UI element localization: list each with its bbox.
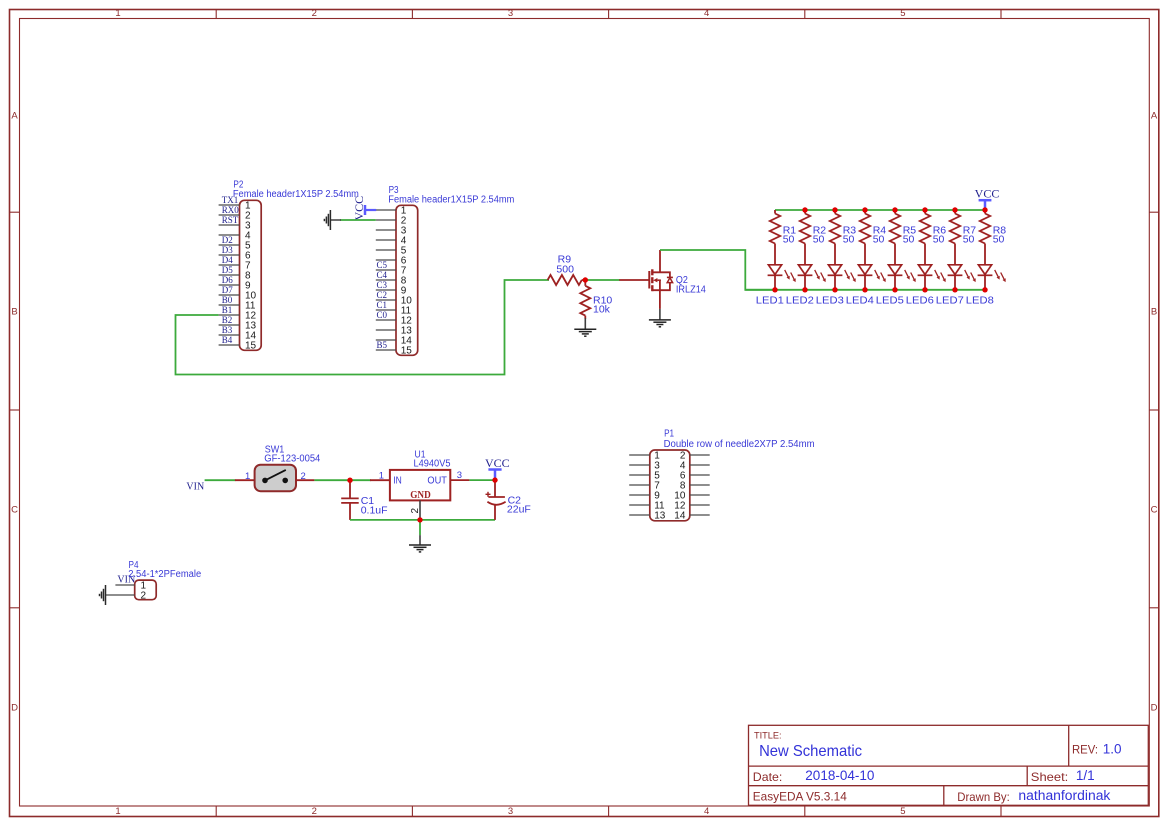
svg-text:LED6: LED6	[906, 295, 934, 307]
svg-text:1/1: 1/1	[1076, 768, 1095, 783]
svg-text:10k: 10k	[593, 303, 611, 315]
svg-text:3: 3	[508, 8, 513, 19]
svg-text:B: B	[1151, 307, 1157, 318]
svg-text:LED8: LED8	[966, 295, 994, 307]
svg-text:LED3: LED3	[816, 295, 844, 307]
svg-text:B4: B4	[222, 335, 233, 345]
svg-text:RST: RST	[222, 215, 239, 225]
svg-text:1.0: 1.0	[1103, 741, 1122, 756]
svg-text:2018-04-10: 2018-04-10	[805, 768, 874, 783]
svg-text:VIN: VIN	[186, 482, 204, 493]
svg-text:2: 2	[312, 806, 317, 817]
svg-text:VCC: VCC	[352, 196, 366, 221]
svg-text:D6: D6	[222, 275, 233, 285]
svg-text:C: C	[11, 504, 18, 515]
svg-text:22uF: 22uF	[507, 503, 531, 515]
svg-text:50: 50	[963, 234, 975, 246]
svg-text:C: C	[1151, 504, 1158, 515]
svg-text:1: 1	[115, 806, 120, 817]
svg-text:C1: C1	[377, 300, 388, 310]
svg-text:D7: D7	[222, 285, 233, 295]
svg-text:LED5: LED5	[876, 295, 904, 307]
svg-text:A: A	[11, 111, 18, 122]
svg-text:15: 15	[245, 341, 257, 352]
svg-text:LED7: LED7	[936, 295, 964, 307]
svg-text:4: 4	[704, 8, 709, 19]
svg-text:D2: D2	[222, 235, 233, 245]
svg-text:GF-123-0054: GF-123-0054	[264, 454, 321, 465]
svg-text:500: 500	[556, 263, 574, 275]
svg-text:3: 3	[457, 470, 462, 481]
svg-text:C5: C5	[377, 260, 388, 270]
svg-text:15: 15	[401, 346, 413, 357]
svg-text:C3: C3	[377, 280, 388, 290]
svg-text:50: 50	[873, 234, 885, 246]
svg-text:Female header1X15P 2.54mm: Female header1X15P 2.54mm	[388, 194, 514, 205]
svg-text:1: 1	[245, 471, 250, 482]
svg-text:C0: C0	[377, 310, 388, 320]
svg-text:D: D	[11, 702, 18, 713]
svg-text:13: 13	[654, 511, 666, 522]
svg-text:New Schematic: New Schematic	[759, 743, 862, 760]
svg-text:D4: D4	[222, 255, 233, 265]
svg-text:REV:: REV:	[1072, 743, 1098, 757]
svg-text:D5: D5	[222, 265, 233, 275]
svg-text:B0: B0	[222, 295, 233, 305]
svg-text:1: 1	[115, 8, 120, 19]
svg-text:OUT: OUT	[427, 476, 447, 487]
svg-text:B3: B3	[222, 325, 233, 335]
svg-text:50: 50	[813, 234, 825, 246]
svg-text:B2: B2	[222, 315, 233, 325]
svg-text:TITLE:: TITLE:	[754, 731, 782, 741]
svg-text:B: B	[11, 307, 17, 318]
svg-text:LED4: LED4	[846, 295, 874, 307]
svg-text:IRLZ14: IRLZ14	[676, 284, 707, 295]
svg-text:2.54-1*2PFemale: 2.54-1*2PFemale	[128, 569, 202, 580]
svg-text:50: 50	[903, 234, 915, 246]
svg-text:D: D	[1151, 702, 1158, 713]
svg-text:5: 5	[900, 806, 905, 817]
svg-text:Female header1X15P 2.54mm: Female header1X15P 2.54mm	[233, 189, 359, 200]
svg-text:C2: C2	[377, 290, 388, 300]
svg-text:RX0: RX0	[222, 205, 240, 215]
svg-text:LED2: LED2	[786, 295, 814, 307]
svg-text:Date:: Date:	[753, 770, 783, 784]
svg-text:2: 2	[410, 508, 421, 514]
svg-text:50: 50	[993, 234, 1005, 246]
svg-text:50: 50	[783, 234, 795, 246]
svg-text:14: 14	[674, 511, 686, 522]
svg-text:LED1: LED1	[756, 295, 784, 307]
svg-text:1: 1	[379, 471, 384, 482]
svg-text:GND: GND	[410, 490, 431, 501]
svg-text:P1: P1	[664, 429, 674, 440]
svg-text:50: 50	[933, 234, 945, 246]
svg-text:VCC: VCC	[485, 456, 510, 470]
svg-text:IN: IN	[393, 476, 402, 487]
svg-text:3: 3	[508, 806, 513, 817]
svg-text:B5: B5	[377, 340, 388, 350]
svg-text:B1: B1	[222, 305, 233, 315]
svg-text:Drawn By:: Drawn By:	[957, 790, 1010, 804]
svg-text:EasyEDA V5.3.14: EasyEDA V5.3.14	[753, 789, 847, 803]
svg-text:C4: C4	[377, 270, 388, 280]
svg-text:0.1uF: 0.1uF	[361, 505, 388, 517]
svg-text:Sheet:: Sheet:	[1031, 770, 1069, 784]
svg-text:2: 2	[312, 8, 317, 19]
svg-text:A: A	[1151, 111, 1158, 122]
svg-text:50: 50	[843, 234, 855, 246]
svg-text:nathanfordinak: nathanfordinak	[1018, 788, 1110, 803]
svg-text:5: 5	[900, 8, 905, 19]
svg-text:4: 4	[704, 806, 709, 817]
svg-text:Double row of needle2X7P 2.54m: Double row of needle2X7P 2.54mm	[664, 439, 815, 450]
svg-text:2: 2	[141, 591, 147, 602]
svg-text:D3: D3	[222, 245, 233, 255]
svg-text:VCC: VCC	[975, 187, 1000, 201]
svg-text:L4940V5: L4940V5	[414, 458, 452, 469]
